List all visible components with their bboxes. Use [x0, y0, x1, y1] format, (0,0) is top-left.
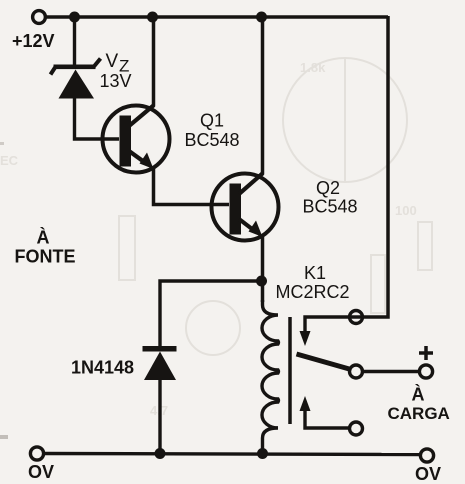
- svg-text:13V: 13V: [100, 71, 132, 91]
- svg-text:MC2RC2: MC2RC2: [276, 282, 350, 302]
- terminal 0V right: [420, 449, 433, 462]
- terminal +12V: [33, 11, 46, 24]
- terminal 0V left: [30, 447, 43, 460]
- svg-text:FONTE: FONTE: [15, 247, 76, 267]
- wire zener anode to Q1 base: [75, 98, 120, 139]
- node Q2 collector/top rail: [256, 12, 267, 23]
- relay K1 coil: [262, 300, 278, 454]
- transistor Q2: [212, 173, 279, 241]
- relay NO contact: [300, 396, 363, 435]
- svg-text:+12V: +12V: [12, 31, 55, 51]
- svg-text:BC548: BC548: [185, 130, 240, 150]
- svg-text:À: À: [37, 227, 50, 248]
- wire Q2 collector to rail: [261, 17, 265, 174]
- zener diode VZ 13V: [51, 59, 101, 99]
- wire common to load terminal: [363, 370, 420, 373]
- wire top rail: [46, 15, 388, 19]
- node coil/0V rail: [257, 448, 268, 459]
- svg-text:Q2: Q2: [316, 178, 340, 198]
- relay common contact: [350, 365, 363, 378]
- node diode/0V rail: [155, 448, 166, 459]
- svg-text:OV: OV: [28, 462, 54, 482]
- svg-text:Q1: Q1: [200, 111, 224, 131]
- svg-text:1.8k: 1.8k: [300, 60, 326, 75]
- svg-text:OV: OV: [415, 464, 441, 484]
- svg-text:EC: EC: [0, 153, 19, 168]
- terminal A CARGA: [419, 365, 432, 378]
- relay armature: [297, 354, 352, 370]
- svg-text:À: À: [412, 384, 425, 405]
- wire rail to zener cathode: [73, 17, 76, 66]
- wire right branch to NC contact: [349, 16, 388, 317]
- node emitter/diode/coil: [256, 276, 267, 287]
- label plus: [419, 346, 433, 360]
- wire Q1 collector to rail: [152, 17, 156, 106]
- svg-text:BC548: BC548: [303, 197, 358, 217]
- wire Q1 emitter to Q2 base: [154, 167, 230, 205]
- relay NC contact: [300, 311, 363, 347]
- node zener/top rail: [69, 12, 80, 23]
- svg-text:1N4148: 1N4148: [71, 358, 134, 378]
- diode 1N4148: [143, 346, 177, 380]
- wire bottom rail: [44, 454, 420, 455]
- relay core bar: [288, 317, 292, 424]
- svg-text:CARGA: CARGA: [388, 404, 450, 423]
- svg-text:K1: K1: [304, 263, 326, 283]
- svg-text:V: V: [106, 51, 119, 72]
- wire Q2 emitter to coil junction: [261, 235, 265, 302]
- svg-text:100: 100: [395, 203, 417, 218]
- wire diode branch: [160, 281, 261, 347]
- wire diode anode to 0V rail: [158, 379, 161, 454]
- transistor Q1: [103, 105, 170, 173]
- node Q1 collector/top rail: [147, 12, 158, 23]
